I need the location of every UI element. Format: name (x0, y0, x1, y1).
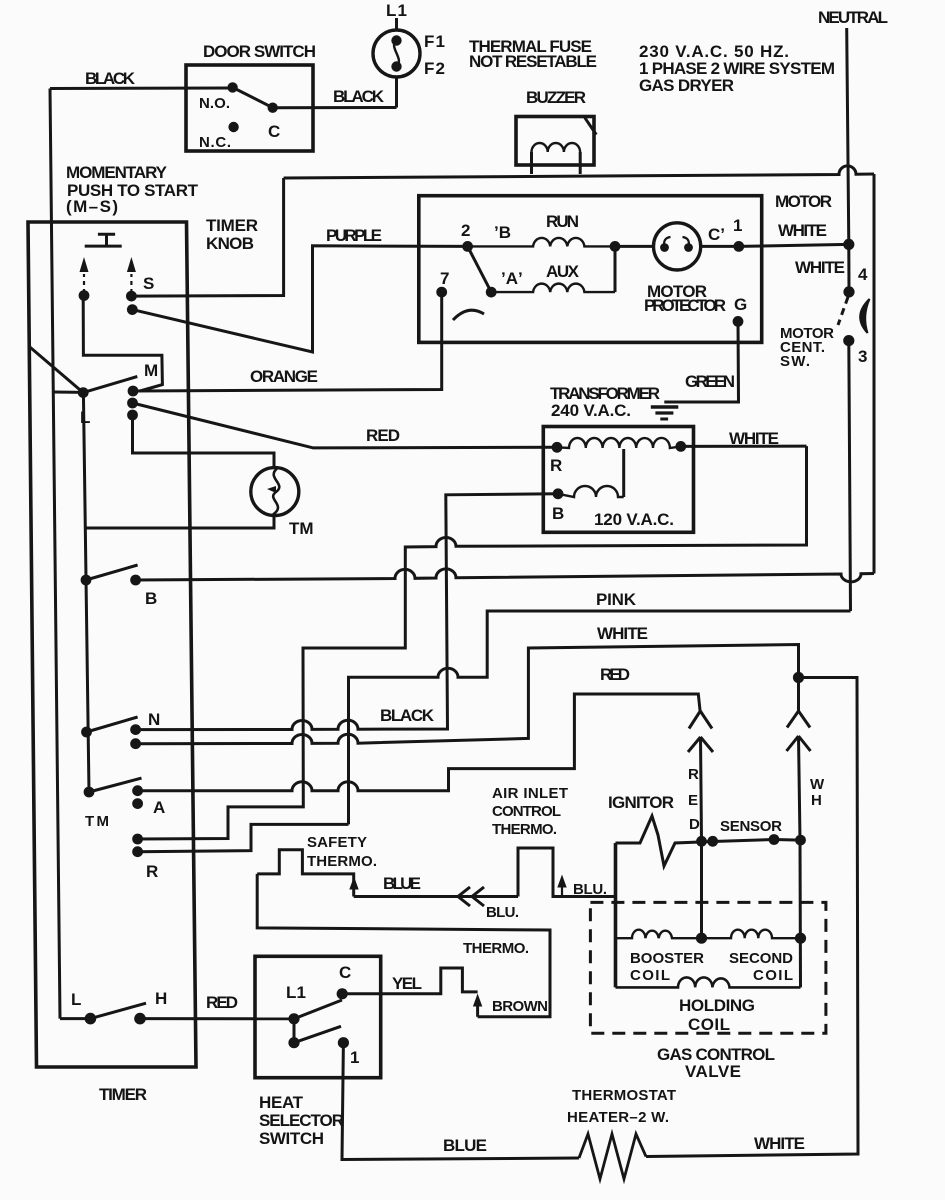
wire B across with humps and right riser (136, 569, 874, 582)
wire black from left to door switch N.O. (50, 87, 233, 91)
svg-text:3: 3 (858, 347, 867, 366)
node TM pivot (84, 787, 95, 798)
node N pivot (81, 727, 92, 738)
svg-text:BLACK: BLACK (333, 87, 385, 106)
svg-text:TM: TM (289, 519, 314, 538)
svg-text:GREEN: GREEN (685, 372, 735, 391)
svg-text:THERMO.: THERMO. (307, 853, 377, 870)
wire red M-middle to transformer R (133, 403, 558, 448)
node heat selector lower pole (288, 1037, 299, 1048)
holding coil bottom loop (616, 977, 801, 987)
node ignitor/red junction (696, 836, 707, 847)
wire purple from S-bottom diagonal and riser to pin 2 (132, 246, 467, 352)
svg-text:PURPLE: PURPLE (326, 226, 382, 245)
motor protector (654, 223, 701, 270)
svg-text:N.O.: N.O. (199, 95, 230, 112)
svg-text:120 V.A.C.: 120 V.A.C. (594, 510, 674, 529)
svg-text:BLU.: BLU. (486, 904, 519, 921)
buzzer (516, 117, 596, 175)
wire aux up to junction (614, 246, 617, 292)
svg-text:NEUTRAL: NEUTRAL (818, 8, 888, 27)
wire C to fuse (273, 106, 397, 109)
node B pivot (81, 575, 92, 586)
svg-text:R: R (688, 766, 699, 783)
timer box (28, 222, 196, 1067)
svg-text:SECOND: SECOND (729, 950, 793, 967)
node N contacts (130, 724, 141, 735)
node second coil right junction (795, 933, 806, 944)
node timer bottom H (134, 1013, 146, 1025)
timer motor TM (251, 468, 299, 516)
wire blue drop from contact 1 (342, 1043, 579, 1160)
wire NEUTRAL vertical (847, 28, 849, 244)
node white junction (793, 672, 804, 683)
svg-text:C: C (268, 122, 280, 141)
svg-text:GAS DRYER: GAS DRYER (639, 76, 734, 95)
wire black transformer B to timer N-top (136, 494, 558, 730)
door switch arm N.O. to C (233, 87, 273, 107)
push button icon (85, 234, 122, 246)
motor switch arm pin2 to aux (468, 246, 492, 292)
svg-text:COIL: COIL (753, 967, 793, 984)
svg-text:AUX: AUX (546, 262, 580, 281)
svg-text:RED: RED (366, 426, 400, 445)
node heat selector L1 (288, 1013, 299, 1024)
node transformer R (552, 442, 563, 453)
node run/aux junction (610, 241, 621, 252)
svg-text:SAFETY: SAFETY (307, 834, 367, 851)
wire green G to ground (664, 321, 738, 402)
svg-text:WHITE: WHITE (597, 624, 648, 643)
svg-text:HEAT: HEAT (259, 1093, 304, 1112)
svg-text:TIMER: TIMER (206, 216, 258, 235)
wire A (red) with humps, staircase to ignitor plug (138, 694, 701, 791)
transformer tap (622, 449, 625, 497)
svg-text:E: E (688, 792, 698, 809)
svg-text:L1: L1 (286, 983, 306, 1002)
wire blue to air inlet (354, 895, 518, 898)
node A contacts (132, 785, 143, 796)
svg-text:SELECTOR: SELECTOR (259, 1111, 344, 1130)
svg-text:BOOSTER: BOOSTER (630, 950, 704, 967)
node motor pin 1 (733, 241, 744, 252)
svg-text:ʼAʼ: ʼAʼ (501, 269, 523, 288)
svg-text:PROTECTOR: PROTECTOR (644, 296, 726, 315)
transformer box (543, 427, 693, 533)
wire orange M-top to motor pin 7 (133, 292, 442, 391)
svg-text:HOLDING: HOLDING (679, 996, 755, 1015)
brown plug arrow (473, 994, 482, 1007)
svg-text:MOTOR: MOTOR (775, 192, 832, 211)
sensor link (713, 840, 774, 842)
svg-text:WHITE: WHITE (795, 258, 845, 277)
svg-text:BLACK: BLACK (85, 69, 136, 88)
wire junction to protector (615, 245, 653, 248)
svg-text:BLUE: BLUE (443, 1136, 487, 1155)
wire red plug shaft to ignitor line (701, 737, 702, 841)
ground (651, 407, 679, 419)
svg-text:MOMENTARY: MOMENTARY (66, 163, 168, 182)
switch arm lower (open) (294, 1026, 341, 1042)
svg-text:S: S (143, 274, 154, 293)
safety thermo plug arrow (349, 877, 358, 890)
second coil (702, 930, 801, 939)
node heat selector contact 1 (338, 1037, 349, 1048)
wire N-bottom (white) with humps to mid riser (136, 645, 799, 744)
node motor pin 7 (436, 287, 447, 298)
svg-text:YEL: YEL (392, 974, 422, 993)
heat selector box (255, 956, 381, 1077)
svg-text:IGNITOR: IGNITOR (608, 793, 674, 812)
node heat selector C (337, 988, 348, 999)
svg-text:A: A (153, 798, 165, 817)
svg-text:VALVE: VALVE (685, 1062, 741, 1081)
transformer primary winding (557, 438, 681, 448)
svg-text:L: L (71, 990, 81, 1009)
svg-text:WHITE: WHITE (729, 429, 779, 448)
svg-text:RED: RED (600, 665, 630, 684)
wire L1 lead (395, 18, 398, 31)
svg-text:N: N (148, 710, 160, 729)
node motor pin 2 (462, 241, 473, 252)
red plug fork (689, 711, 712, 729)
wire white loop right (transformer out down and back left) (138, 446, 807, 839)
wire pink riser (cent sw 3 down) (849, 341, 851, 611)
node M contacts (128, 386, 139, 397)
svg-text:WHITE: WHITE (778, 221, 827, 240)
svg-text:WHITE: WHITE (754, 1134, 805, 1153)
svg-text:R: R (550, 456, 562, 475)
run winding (468, 238, 615, 246)
switch arm L to M (83, 377, 137, 393)
svg-text:TIMER: TIMER (99, 1085, 147, 1104)
transformer secondary winding (558, 486, 624, 497)
svg-text:C: C (339, 963, 351, 982)
wire wh down to second coil (799, 841, 803, 988)
svg-text:SW.: SW. (780, 353, 810, 370)
push start arrow left (79, 257, 90, 301)
svg-text:COIL: COIL (630, 967, 670, 984)
svg-text:R: R (146, 862, 158, 881)
node L (78, 387, 89, 398)
motor centrifugal switch (838, 244, 870, 346)
svg-text:THERMO.: THERMO. (463, 940, 529, 957)
wire pink riser and pink run (349, 611, 851, 824)
wire safety thermo left drop and thermo box top (257, 874, 550, 1017)
svg-text:2: 2 (461, 221, 470, 240)
door switch box (186, 65, 313, 151)
node motor G terminal (733, 316, 744, 327)
thermostat heater element (579, 1134, 646, 1179)
wire R-bottom staircase to pink riser (138, 824, 349, 851)
wire pivot vertical (L down to TM pivot) (83, 393, 89, 792)
ignitor element (616, 816, 713, 866)
svg-text:SWITCH: SWITCH (259, 1129, 324, 1148)
svg-text:W: W (810, 776, 825, 793)
wire red H to heat selector L1 (140, 1017, 294, 1020)
switch arm bottom L-H (90, 1003, 146, 1018)
svg-text:THERMO.: THERMO. (492, 821, 557, 838)
wire right-side vertical (B wire riser) (873, 174, 876, 574)
svg-text:BUZZER: BUZZER (526, 88, 586, 107)
switch arm L (from box edge) (29, 346, 84, 393)
blue plug chevrons (458, 887, 484, 906)
svg-text:240 V.A.C.: 240 V.A.C. (551, 401, 631, 420)
switch arm B (86, 565, 138, 580)
svg-text:SENSOR: SENSOR (720, 818, 782, 835)
svg-text:PINK: PINK (596, 590, 637, 609)
svg-text:DOOR SWITCH: DOOR SWITCH (203, 42, 316, 61)
door switch C contact (268, 103, 278, 113)
svg-text:1: 1 (733, 216, 742, 235)
node aux arm contact (486, 287, 497, 298)
svg-text:1: 1 (350, 1048, 359, 1067)
svg-text:RUN: RUN (546, 212, 579, 231)
wire black down to bottom L (60, 1017, 90, 1020)
wh plug fork (787, 678, 810, 728)
wire pin1 to neutral junction (white) (739, 244, 849, 246)
svg-text:B: B (552, 504, 564, 523)
node R contacts (132, 834, 143, 845)
svg-text:TM: TM (85, 813, 109, 830)
gas control valve dashed box (590, 902, 826, 1033)
node B contact (130, 575, 141, 586)
safety thermostat bump wire (257, 850, 354, 897)
svg-text:CONTROL: CONTROL (492, 803, 561, 820)
aux winding (491, 284, 615, 292)
node transformer B (553, 488, 564, 499)
node timer bottom L (85, 1013, 97, 1025)
svg-text:BLUE: BLUE (383, 874, 421, 893)
svg-text:KNOB: KNOB (206, 234, 254, 253)
svg-text:N.C.: N.C. (199, 134, 231, 151)
centrifugal linkage arc (453, 310, 484, 320)
svg-text:G: G (734, 295, 747, 314)
booster coil (616, 930, 702, 939)
wire yel from heat selector C to thermo (342, 968, 477, 994)
node transformer right (675, 441, 686, 452)
switch arm N (87, 717, 138, 732)
svg-text:(M–S): (M–S) (66, 197, 118, 216)
wire black vertical left side (50, 89, 60, 1019)
svg-text:ORANGE: ORANGE (250, 367, 318, 386)
air inlet control thermostat bump (518, 848, 616, 897)
wire buzzer/S line across top with hump over neutral (284, 166, 874, 178)
door switch N.C. contact (228, 122, 238, 132)
svg-text:AIR INLET: AIR INLET (492, 785, 568, 802)
wire white transformer out (681, 445, 807, 448)
svg-text:THERMOSTAT: THERMOSTAT (572, 1087, 676, 1104)
svg-text:D: D (689, 816, 700, 833)
wire S-top to buzzer line (up and right) (131, 178, 283, 296)
svg-text:7: 7 (440, 269, 449, 288)
svg-text:4: 4 (858, 265, 868, 284)
wire white junction right and down to bottom (646, 678, 858, 1157)
svg-text:HEATER–2 W.: HEATER–2 W. (567, 1109, 669, 1126)
gas valve box left edge (614, 843, 618, 987)
air inlet plug arrow (557, 875, 566, 888)
wire red down to booster junction (700, 841, 703, 938)
push start arrow right / S contact (126, 257, 138, 315)
wire TM bottom to pivot line (86, 515, 275, 528)
svg-text:BROWN: BROWN (492, 998, 548, 1015)
knob linkage outline (83, 298, 162, 391)
wire protector to pin 1 (701, 245, 739, 248)
wire wh plug shaft to sensor (799, 736, 801, 841)
wire stub black vertical to L (53, 391, 83, 394)
svg-text:Cʼ: Cʼ (708, 225, 725, 244)
svg-text:H: H (811, 792, 822, 809)
svg-text:ʼB: ʼB (494, 223, 511, 242)
red plug arrow (688, 737, 713, 752)
svg-text:RED: RED (206, 993, 238, 1012)
wire TM from M-bottom (133, 415, 275, 468)
thermal fuse F1-F2 (373, 30, 420, 77)
svg-text:H: H (155, 989, 167, 1008)
svg-text:M: M (144, 361, 158, 380)
node neutral junction (843, 239, 854, 250)
svg-text:BLU.: BLU. (573, 881, 607, 898)
svg-text:BLACK: BLACK (380, 706, 435, 725)
svg-text:COIL: COIL (688, 1015, 730, 1034)
switch arm A (89, 778, 142, 792)
door switch N.O. contact (227, 82, 237, 92)
motor box (419, 196, 762, 343)
svg-text:B: B (145, 589, 157, 608)
svg-text:NOT RESETABLE: NOT RESETABLE (469, 52, 597, 71)
switch arm L1 to C (294, 1000, 342, 1019)
wh plug arrow (787, 736, 811, 751)
link L1 to lower pole (293, 1019, 296, 1043)
node booster/second junction (696, 933, 707, 944)
